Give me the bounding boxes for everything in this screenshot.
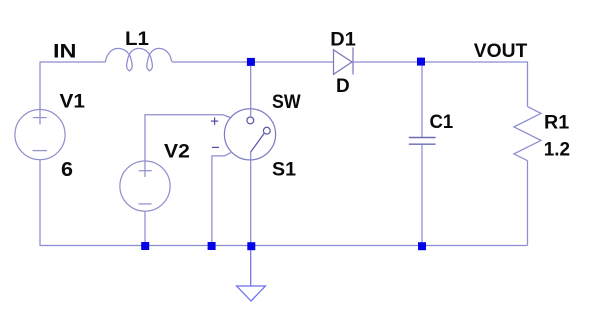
svg-text:V1: V1 (60, 92, 86, 113)
wire resistor bottom to rail (527, 161, 529, 246)
switch plus mark (211, 117, 218, 124)
svg-text:S1: S1 (272, 160, 296, 181)
wire capacitor top (421, 62, 423, 137)
svg-text:SW: SW (272, 92, 301, 113)
svg-text:6: 6 (61, 159, 73, 181)
wire switch minus terminal to ground rail (212, 153, 231, 246)
switch minus mark (212, 146, 219, 148)
wire from inductor to diode anode (173, 61, 334, 63)
junction node switch minus (208, 242, 216, 250)
svg-text:V2: V2 (164, 142, 190, 163)
junction node at L1/D1/SW (247, 58, 255, 66)
switch S1 (224, 109, 275, 160)
svg-text:L1: L1 (125, 29, 149, 50)
junction node V2 bottom (141, 242, 149, 250)
wire V2 bottom to rail (144, 211, 146, 245)
voltage source V2 (120, 161, 170, 211)
junction node C1 bottom (418, 242, 426, 250)
diode D1 (334, 48, 354, 75)
junction node at D1/C1/VOUT (417, 58, 425, 66)
ground (237, 250, 266, 301)
wire capacitor bottom (421, 145, 423, 246)
wire switch top terminal (250, 62, 252, 117)
svg-text:IN: IN (53, 42, 77, 63)
wire V2 top to switch plus terminal (145, 115, 231, 161)
resistor R1 (514, 107, 541, 161)
svg-text:D1: D1 (330, 29, 356, 50)
svg-text:VOUT: VOUT (474, 41, 528, 62)
junction node ground (247, 242, 255, 250)
svg-text:R1: R1 (544, 113, 570, 134)
wire from diode to VOUT corner and down to resistor (353, 62, 528, 107)
svg-text:C1: C1 (430, 112, 454, 133)
wire IN net: left vertical and top-left segment (40, 62, 106, 110)
inductor L1 (106, 48, 174, 71)
voltage source V1 (15, 110, 65, 160)
svg-text:D: D (336, 76, 350, 97)
wire bottom rail (40, 160, 528, 246)
capacitor C1 (409, 138, 436, 145)
wire switch bottom to rail (250, 152, 252, 246)
svg-text:1.2: 1.2 (544, 140, 570, 161)
